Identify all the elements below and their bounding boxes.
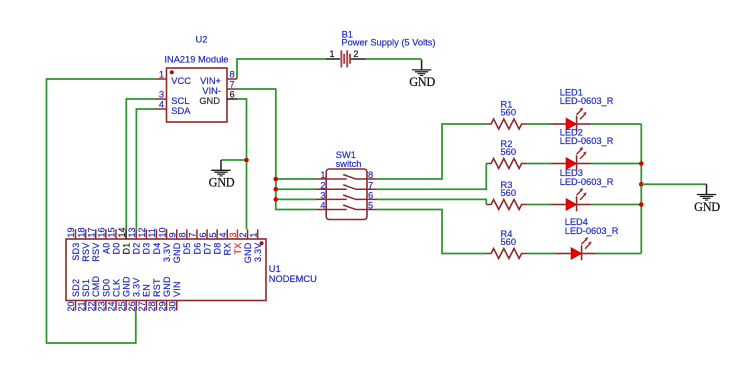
resistor R1 560 [486,119,527,129]
wire LED4 to right rail [596,253,641,255]
svg-text:VIN: VIN [172,281,182,297]
svg-text:560: 560 [501,237,517,247]
wire branch to SW1 pin3 [276,198,316,200]
svg-text:GND: GND [243,242,253,263]
svg-text:15: 15 [107,227,117,237]
svg-text:3: 3 [320,191,325,201]
wire branch to SW1 pin1 [276,178,316,180]
wire R4 to LED4 [527,253,556,255]
U1 pin1 orientation dot [260,241,264,245]
svg-text:2: 2 [353,49,358,59]
svg-text:11: 11 [147,228,157,237]
svg-text:18: 18 [76,227,86,237]
svg-text:13: 13 [127,227,137,237]
wire R1 to LED1 [527,123,551,125]
svg-text:GND: GND [694,200,720,214]
svg-text:1: 1 [248,232,258,237]
wire net VIN- : U2 pin7 to SW1 inputs [237,89,316,210]
svg-text:LED-0603_R: LED-0603_R [565,226,619,236]
U1 top pin 1 (3.3V) stub [257,229,259,239]
svg-text:9: 9 [167,232,177,237]
svg-text:8: 8 [368,170,373,180]
svg-text:D5: D5 [182,243,192,255]
LED LED1 [551,108,591,131]
LED LED4 [556,237,596,260]
svg-text:4: 4 [320,201,325,211]
wire GND branch to middle ground symbol [221,159,247,161]
svg-text:7: 7 [368,180,373,190]
svg-text:3.3V: 3.3V [162,243,172,263]
svg-text:GND: GND [172,242,182,263]
svg-text:CMD: CMD [91,276,101,297]
svg-text:4: 4 [218,232,228,237]
svg-text:3.3V: 3.3V [253,243,263,263]
svg-text:17: 17 [86,227,96,237]
svg-text:RSV: RSV [91,243,101,262]
svg-text:U2: U2 [196,35,208,45]
svg-text:5: 5 [368,201,373,211]
svg-text:7: 7 [188,232,198,237]
SW1 pole 3 contacts and blade [316,195,377,199]
svg-text:28: 28 [147,302,157,312]
wire SW1 pin8 to R1 [377,124,486,179]
U1 top pin 12 (D3) stub [145,229,147,239]
wire R2 to LED2 [527,163,551,165]
U1 top pin 13 (D2) stub [135,229,137,239]
svg-text:3: 3 [159,90,164,100]
junction SW1 pin1 branch [274,177,279,182]
SW1 pole 2 contacts and blade [316,185,377,189]
svg-text:GND: GND [209,176,235,190]
svg-text:D2: D2 [132,243,142,255]
wire LED2 to right rail [591,163,641,165]
svg-text:30: 30 [167,302,177,312]
svg-text:25: 25 [117,302,127,312]
svg-text:23: 23 [97,302,107,312]
U1 bottom pin 20 (SD2) stub [75,301,77,311]
svg-text:VIN-: VIN- [202,86,221,96]
svg-text:VCC: VCC [171,76,191,86]
junction rail row2 [639,161,644,166]
svg-text:6: 6 [198,232,208,237]
junction SW1 pin3 branch [274,197,279,202]
svg-text:RSV: RSV [81,243,91,262]
U2 pin 1 VCC stub [156,78,167,80]
U1 bottom pin 26 (3.3V) stub [135,301,137,311]
svg-text:CLK: CLK [111,279,121,297]
wire SW1 pin5 to R4 [377,210,486,254]
svg-text:D3: D3 [142,243,152,255]
svg-text:1: 1 [320,170,325,180]
svg-text:VIN+: VIN+ [200,76,221,86]
svg-text:D4: D4 [152,243,162,255]
svg-text:2: 2 [320,180,325,190]
wire R3 to LED3 [527,204,551,206]
svg-text:560: 560 [501,147,517,157]
U1 bottom pin 24 (CLK) stub [115,301,117,311]
U1 bottom pin 27 (EN) stub [145,301,147,311]
svg-text:3.3V: 3.3V [132,277,142,297]
svg-text:switch: switch [336,159,362,169]
junction rail gnd branch [639,182,644,187]
svg-text:GND: GND [199,96,220,106]
svg-text:22: 22 [86,302,96,312]
junction SW1 pin2 branch [274,187,279,192]
U2 pin 6 GND stub (black) [227,98,237,100]
svg-text:16: 16 [97,227,107,237]
svg-text:D6: D6 [192,243,202,255]
U1 top pin 11 (D4) stub [155,229,157,239]
ground right (LED cathodes) [694,184,720,214]
svg-text:GND: GND [409,75,435,89]
svg-text:27: 27 [137,302,147,312]
microcontroller module U1 NODEMCU body [66,239,266,301]
svg-text:LED-0603_R: LED-0603_R [560,96,614,106]
switch SW1 body [326,169,367,220]
wire net GND : U2 pin6 down to U1 pin2 [237,99,247,229]
svg-text:14: 14 [117,227,127,237]
SW1 pole 1 contacts and blade [316,175,377,179]
wire right cathode rail [640,124,642,254]
svg-text:1: 1 [329,49,334,59]
svg-text:SD2: SD2 [71,279,81,297]
svg-text:560: 560 [501,188,517,198]
svg-text:8: 8 [178,232,188,237]
svg-text:21: 21 [76,302,86,312]
wire SW1 pin6 to R3 [377,199,486,204]
wire LED1 to right rail [591,123,641,125]
svg-text:D7: D7 [202,243,212,255]
svg-text:RX: RX [223,243,233,256]
svg-text:2: 2 [238,232,248,237]
ground near battery [409,60,435,90]
U2 pin 3 SCL stub [156,98,167,100]
SW1 pole 4 contacts and blade [316,205,377,209]
svg-text:SD1: SD1 [81,279,91,297]
U1 bottom pin 21 (SD1) stub [85,301,87,311]
wire net VCC : U2 pin1 to U1 pin26 (3.3V) [47,79,157,343]
svg-text:INA219 Module: INA219 Module [164,55,228,65]
U2 pin1 orientation dot [170,70,174,74]
U2 pin 7 VIN- stub [227,88,237,90]
LED LED3 [551,188,591,211]
U2 pin 4 SDA stub [156,108,167,110]
U1 top pin 9 (GND) stub [176,229,178,239]
U1 top pin 18 (RSV) stub [85,229,87,239]
svg-text:7: 7 [230,80,235,90]
svg-text:10: 10 [157,227,167,237]
wire net SDA : U2 pin4 to U1 pin13 (D2) [136,109,156,229]
svg-text:D8: D8 [213,243,223,255]
svg-text:560: 560 [501,108,517,118]
wire rail to right ground [641,183,706,185]
U1 top pin 16 (A0) stub [105,229,107,239]
U1 bottom pin 23 (SD0) stub [105,301,107,311]
wire LED3 to right rail [591,204,641,206]
U1 bottom pin 28 (RST) stub [155,301,157,311]
svg-text:GND: GND [162,276,172,297]
wire branch to SW1 pin2 [276,188,316,190]
svg-text:29: 29 [157,302,167,312]
U1 top pin 2 (GND) stub [247,229,249,239]
wire net SCL : U2 pin3 to U1 pin14 (D1) [126,99,156,229]
svg-text:24: 24 [107,302,117,312]
svg-text:RST: RST [152,278,162,297]
U2 pin 8 VIN+ stub [227,78,237,80]
wire SW1 pin7 to R2 [377,164,486,190]
U1 top pin 14 (D1) stub [125,229,127,239]
wire battery pin2 to ground [366,58,422,60]
U1 top pin 17 (RSV) stub [95,229,97,239]
svg-text:GND: GND [122,276,132,297]
svg-text:19: 19 [66,227,76,237]
resistor R4 560 [486,249,527,259]
U1 bottom pin 25 (GND) stub [125,301,127,311]
junction rail row3 [639,202,644,207]
svg-text:26: 26 [127,302,137,312]
battery B1 [326,50,366,67]
svg-text:5: 5 [208,232,218,237]
ground middle (U2 GND net) [209,160,235,190]
op-amp-style module U2 INA219 body [167,68,228,122]
svg-text:NODEMCU: NODEMCU [269,274,317,284]
U1 top pin 3 (TX) stub [236,229,238,239]
svg-text:SD0: SD0 [101,279,111,297]
svg-text:Power Supply (5 Volts): Power Supply (5 Volts) [341,38,435,48]
svg-text:12: 12 [137,227,147,237]
svg-text:6: 6 [230,90,235,100]
resistor R3 560 [486,200,527,210]
svg-text:SDA: SDA [171,106,191,116]
U1 top pin 10 (3.3V) stub [166,229,168,239]
svg-text:20: 20 [66,302,76,312]
svg-text:D1: D1 [122,243,132,255]
svg-text:SD3: SD3 [71,243,81,261]
svg-text:6: 6 [368,191,373,201]
U1 top pin 7 (D6) stub [196,229,198,239]
svg-text:D0: D0 [111,243,121,255]
U1 bottom pin 30 (VIN) stub [176,301,178,311]
svg-text:U1: U1 [269,264,281,274]
wire net V+ : U2 pin8 up to battery pin 1 [237,59,326,79]
U1 top pin 15 (D0) stub [115,229,117,239]
svg-text:EN: EN [142,284,152,297]
svg-text:SCL: SCL [171,96,189,106]
svg-text:TX: TX [233,243,243,255]
U1 bottom pin 29 (GND) stub [166,301,168,311]
LED LED2 [551,147,591,170]
svg-text:1: 1 [159,70,164,80]
U1 top pin 4 (RX) stub [226,229,228,239]
junction on GND net [244,158,249,163]
svg-text:4: 4 [159,100,164,110]
U1 top pin 19 (SD3) stub [75,229,77,239]
U1 bottom pin 22 (CMD) stub [95,301,97,311]
U1 top pin 5 (D8) stub [216,229,218,239]
resistor R2 560 [486,159,527,169]
svg-text:A0: A0 [101,243,111,255]
svg-text:3: 3 [228,232,238,237]
svg-text:LED-0603_R: LED-0603_R [560,177,614,187]
svg-text:8: 8 [230,70,235,80]
U1 top pin 8 (D5) stub [186,229,188,239]
svg-text:LED-0603_R: LED-0603_R [560,136,614,146]
U1 top pin 6 (D7) stub [206,229,208,239]
